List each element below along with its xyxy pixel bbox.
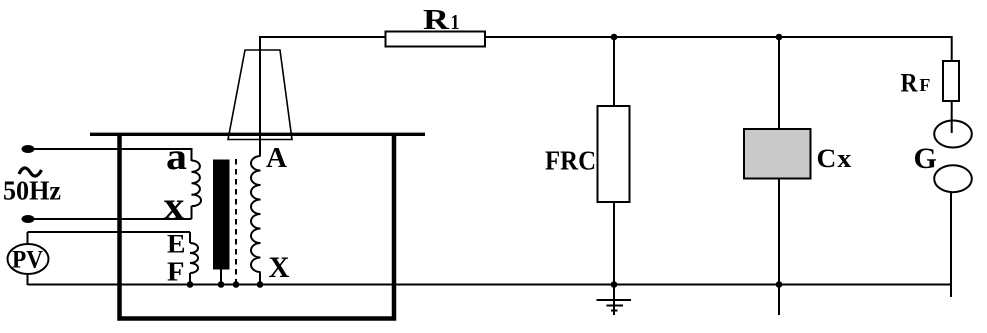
svg-text:a: a (166, 136, 187, 178)
svg-text:FRC: FRC (545, 146, 596, 176)
svg-text:X: X (269, 251, 290, 284)
svg-text:E: E (167, 230, 186, 259)
svg-text:A: A (266, 143, 288, 174)
svg-text:50Hz: 50Hz (3, 176, 61, 206)
svg-text:R: R (423, 4, 450, 36)
svg-text:F: F (919, 75, 930, 95)
svg-text:x: x (164, 183, 185, 228)
svg-text:PV: PV (12, 246, 43, 273)
svg-text:G: G (914, 142, 937, 175)
svg-text:R: R (901, 69, 918, 98)
svg-text:F: F (167, 257, 185, 287)
svg-text:1: 1 (451, 10, 460, 34)
svg-text:C: C (817, 144, 837, 173)
svg-text:x: x (837, 144, 851, 173)
